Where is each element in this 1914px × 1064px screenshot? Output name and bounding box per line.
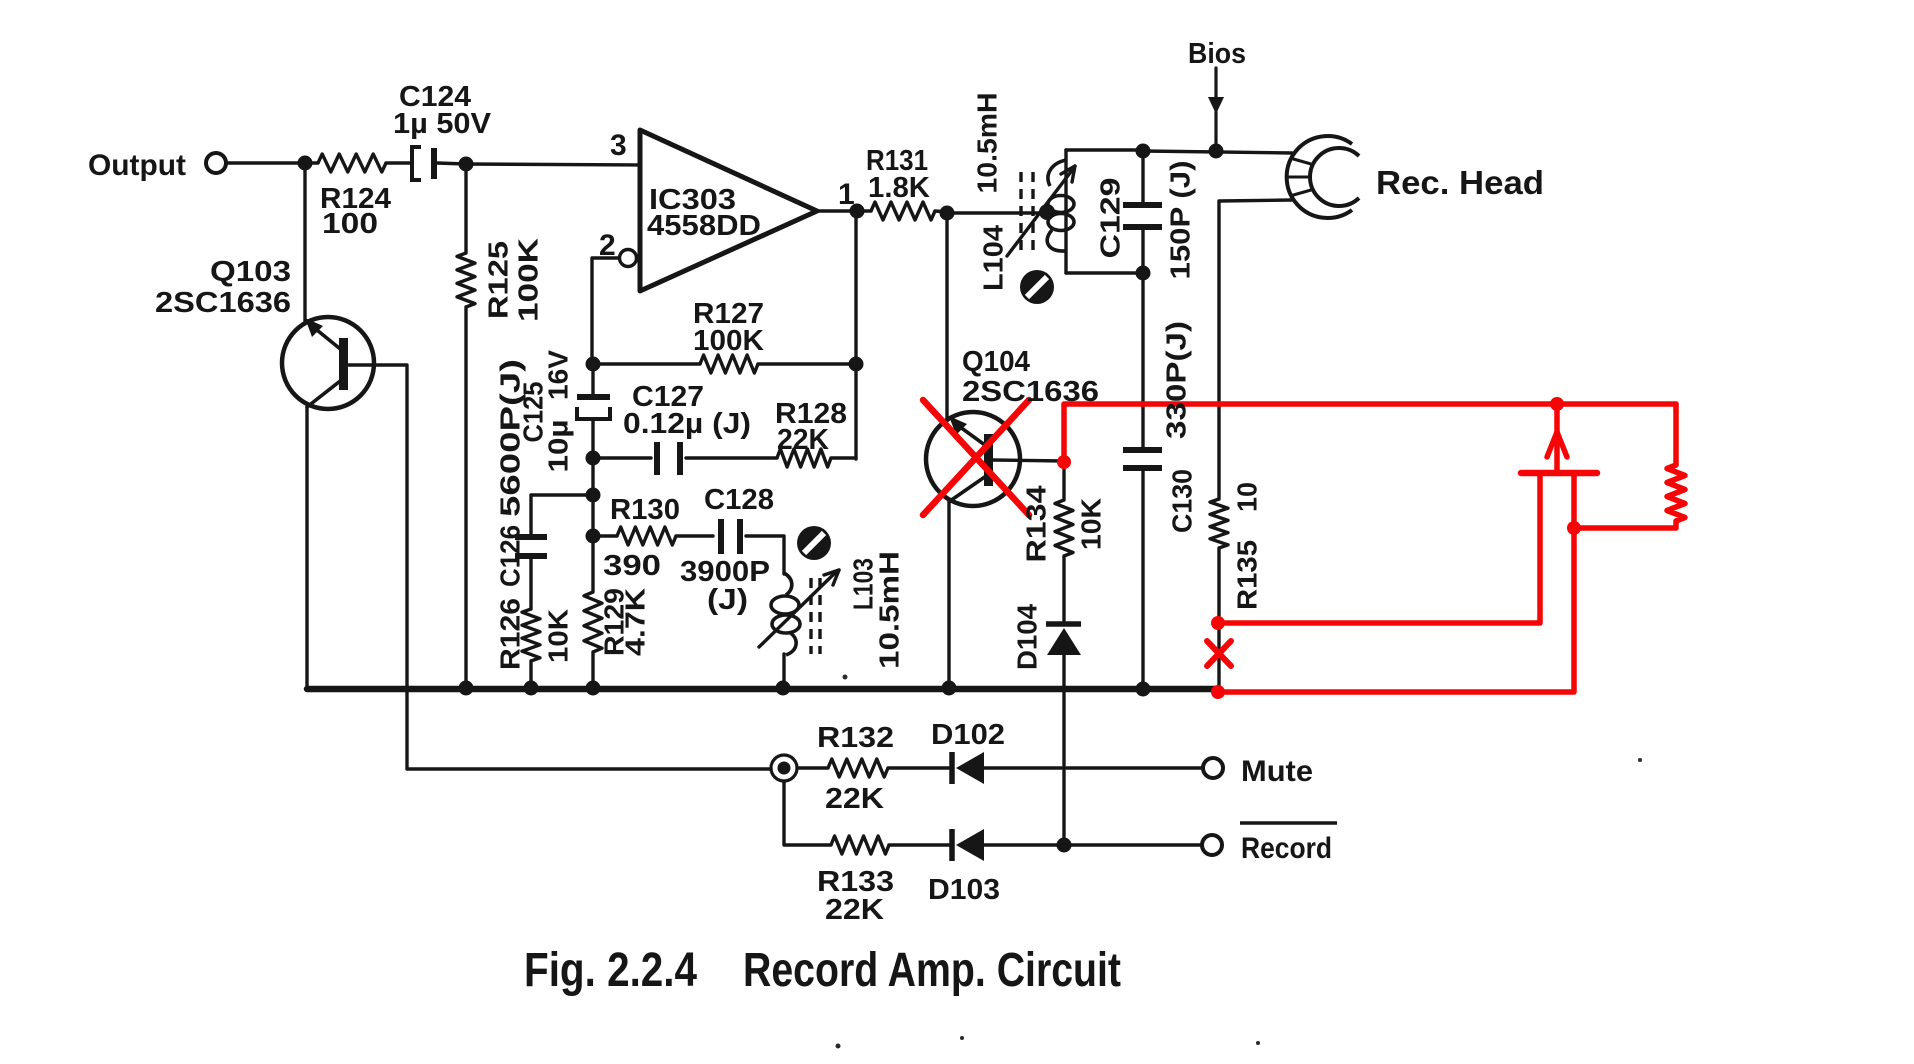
svg-text:C126: C126	[495, 525, 526, 587]
wire Bias lead upper	[1214, 68, 1217, 97]
diode D103 triangle	[956, 829, 984, 861]
node R130 row	[586, 529, 601, 544]
red wire left leg to R135	[1218, 473, 1540, 623]
inductor L104 coil	[1047, 160, 1074, 251]
resistor R128	[777, 449, 831, 467]
wire R135 bottom lead	[1217, 548, 1220, 692]
speck	[960, 1036, 964, 1040]
wire node to op-amp pin 3	[466, 164, 640, 165]
svg-text:Rec. Head: Rec. Head	[1376, 164, 1544, 201]
svg-text:100K: 100K	[513, 238, 544, 322]
red arrowhead stroke a	[1547, 432, 1557, 457]
capacitor C130 bottom plate	[1123, 465, 1162, 471]
capacitor C129 top plate	[1123, 202, 1162, 208]
resistor R135	[1210, 499, 1228, 548]
svg-text:16V: 16V	[543, 350, 574, 400]
svg-text:2SC1636: 2SC1636	[962, 376, 1099, 408]
wire C127 left lead	[593, 456, 651, 459]
diode D104 triangle	[1047, 628, 1081, 655]
capacitor C127 right plate	[677, 442, 683, 475]
wire D102 to Mute terminal	[984, 766, 1203, 769]
wire R130 left stub	[593, 534, 617, 537]
svg-text:4558DD: 4558DD	[647, 210, 761, 242]
svg-text:2: 2	[599, 229, 616, 262]
red arrowhead stroke b	[1557, 432, 1567, 457]
wire Q103 emitter down to bus corner	[305, 407, 308, 689]
wire R127 right lead	[758, 362, 856, 365]
wire C126 branch	[531, 495, 593, 534]
svg-text:R130: R130	[610, 494, 680, 526]
resistor R133	[831, 836, 889, 854]
transistor Q104 emitter stroke	[950, 474, 989, 501]
node bus R126	[524, 681, 539, 696]
svg-text:100: 100	[322, 208, 378, 240]
speck	[1256, 1041, 1260, 1045]
capacitor C125 top plate	[577, 394, 610, 400]
svg-text:10K: 10K	[543, 609, 574, 663]
inductor L103 core dashes	[811, 578, 820, 654]
wire R127 left lead	[593, 362, 700, 365]
wire R133 to D103	[889, 843, 951, 846]
svg-text:10: 10	[1232, 482, 1263, 512]
wire pin1 output lead	[817, 209, 871, 212]
svg-text:R132: R132	[817, 722, 894, 754]
wire D103 to Record terminal	[984, 843, 1202, 846]
rec head inner arc	[1310, 148, 1359, 206]
wire C127 to R128	[686, 456, 777, 459]
red node at bus end	[1211, 685, 1225, 699]
red node top rail junction	[1550, 397, 1564, 411]
svg-text:150P (J): 150P (J)	[1165, 161, 1196, 280]
svg-text:10K: 10K	[1076, 498, 1107, 550]
svg-text:Fig. 2.2.4: Fig. 2.2.4	[524, 944, 697, 997]
wire R128 right lead	[831, 456, 856, 459]
wire feedback vertical pin1 to R128	[854, 211, 857, 459]
red X break mark b	[1207, 641, 1231, 666]
svg-text:390: 390	[603, 550, 661, 582]
transistor Q104 collector stroke	[956, 424, 989, 448]
wire Q104 emitter to bus	[947, 500, 950, 689]
svg-text:3: 3	[610, 129, 627, 162]
speck	[843, 675, 848, 680]
svg-text:C128: C128	[704, 484, 774, 516]
wire Q103 base lead right and down to mute row	[349, 365, 771, 769]
resistor R126	[522, 609, 540, 661]
red node at R135 bottom	[1211, 616, 1225, 630]
node pin1 junction	[850, 204, 865, 219]
capacitor C126 bottom plate	[515, 553, 547, 559]
inductor L104 adjust arrowhead	[1061, 166, 1075, 182]
svg-text:1: 1	[838, 178, 855, 211]
resistor R129	[584, 592, 602, 652]
wire C124 to node	[437, 163, 466, 164]
transistor Q103 emitter stroke	[307, 378, 344, 407]
inductor L104 screw slot	[1020, 270, 1054, 304]
svg-text:R134: R134	[1021, 485, 1052, 562]
wire C125 top stub	[591, 364, 594, 394]
wire R129 to bus	[591, 652, 594, 688]
node R127 left / C125 top	[586, 357, 601, 372]
node Bias junction	[1209, 144, 1224, 159]
wire record row drop	[784, 781, 831, 845]
transistor Q104 body	[926, 412, 1020, 506]
speck	[1638, 758, 1642, 762]
node R131/L104/Q104	[940, 206, 955, 221]
wire node to L104	[947, 211, 1043, 214]
node bus L103	[776, 681, 791, 696]
wire C129 bottom stub	[1141, 227, 1144, 273]
inductor L104 core dashes	[1021, 172, 1033, 252]
wire L104 top lead	[1066, 148, 1143, 151]
diode D102 cathode bar	[949, 752, 955, 784]
node C127 row	[586, 451, 601, 466]
wire L103 bottom lead	[782, 654, 785, 688]
svg-text:Mute: Mute	[1241, 755, 1313, 788]
svg-text:Record Amp. Circuit: Record Amp. Circuit	[743, 944, 1121, 997]
wire Q103 collector drop	[303, 163, 306, 322]
wire Q104 collector drop	[945, 213, 948, 421]
resistor R127	[700, 355, 758, 373]
red X break mark a	[1207, 641, 1231, 666]
wire C126 to R126	[529, 559, 532, 609]
red wire resistor bottom to leg	[1574, 521, 1676, 528]
wire R126 to bus	[529, 661, 532, 688]
transistor Q104 collector arrowhead	[949, 416, 967, 435]
capacitor C128 right plate	[737, 519, 743, 554]
wire mute row left	[797, 766, 828, 769]
wire R130 to C128	[676, 534, 713, 537]
svg-text:2SC1636: 2SC1636	[155, 287, 291, 319]
resistor R134	[1055, 500, 1073, 556]
svg-text:D103: D103	[928, 874, 1000, 906]
wire C129 top stub	[1141, 151, 1144, 203]
transistor Q103 collector stroke	[312, 326, 344, 352]
node C129 top	[1136, 144, 1151, 159]
svg-text:10.5mH: 10.5mH	[874, 551, 905, 669]
svg-text:R135: R135	[1232, 540, 1263, 610]
red wire top rail	[1064, 404, 1676, 462]
svg-text:10µ: 10µ	[543, 420, 574, 473]
node junction C124/pin3/R125	[459, 157, 474, 172]
svg-text:22K: 22K	[825, 783, 884, 815]
op-amp pin 2 inversion bubble	[620, 250, 637, 267]
node bus C130	[1136, 682, 1151, 697]
wire R125 top lead	[464, 164, 467, 253]
wire C128 to L103	[746, 536, 784, 574]
node junction output/R124/Q103 collector	[298, 156, 313, 171]
wire R134 top lead	[1062, 461, 1065, 500]
svg-text:D104: D104	[1012, 604, 1043, 670]
wire L104 bottom lead	[1066, 271, 1143, 274]
red resistor	[1667, 465, 1685, 521]
capacitor C125 bottom bracket plate	[577, 407, 610, 419]
resistor R131	[871, 202, 935, 220]
wire pin2 lead left and down	[592, 258, 619, 362]
svg-text:Bios: Bios	[1188, 38, 1246, 70]
inductor L103 adjust arrow shaft	[759, 571, 837, 647]
capacitor C128 left plate	[718, 519, 724, 554]
red node resistor/leg junction	[1567, 521, 1581, 535]
wire L104 vertical side	[1064, 150, 1067, 273]
svg-text:1µ 50V: 1µ 50V	[393, 108, 492, 140]
resistor R125	[457, 253, 475, 307]
red wire right branch with resistor leads	[1673, 404, 1679, 465]
red transistor bar	[1521, 470, 1597, 477]
red node at R134 top	[1057, 455, 1071, 469]
transistor Q103 base bar	[339, 338, 348, 390]
transistor Q103 collector arrowhead	[305, 318, 323, 337]
diode D102 triangle	[956, 752, 984, 784]
capacitor C127 left plate	[654, 442, 660, 475]
svg-text:Q103: Q103	[210, 256, 291, 288]
svg-text:Q104: Q104	[962, 346, 1030, 378]
capacitor C124 right plate	[431, 148, 437, 179]
wire ground bus	[307, 686, 1219, 693]
svg-text:1.8K: 1.8K	[868, 172, 930, 204]
node bus R125	[459, 681, 474, 696]
node mute feed ring	[771, 755, 797, 781]
wire D104 to record row	[1062, 655, 1065, 845]
wire Bias lead lower	[1214, 112, 1217, 151]
wire R125 bottom lead to bus	[464, 307, 467, 688]
svg-text:0.12µ (J): 0.12µ (J)	[623, 408, 751, 440]
svg-text:R125: R125	[483, 241, 514, 319]
capacitor C129 bottom plate	[1123, 224, 1162, 230]
svg-text:Record: Record	[1241, 832, 1332, 865]
wire rec head bottom lead	[1219, 200, 1292, 499]
svg-text:10.5mH: 10.5mH	[972, 93, 1003, 194]
wire main left column C125 to R129	[591, 419, 594, 592]
inductor L104 adjust arrow shaft	[1007, 169, 1073, 256]
svg-text:R126: R126	[495, 598, 526, 670]
op-amp U IC303 triangle	[640, 130, 817, 291]
wire output to node	[227, 161, 318, 164]
svg-text:D102: D102	[931, 719, 1005, 751]
inductor L103 screw slot	[797, 526, 831, 560]
wire top rail C129 to rec head	[1143, 151, 1292, 153]
node D104/record row	[1057, 838, 1072, 853]
rec head winding ticks	[1285, 158, 1311, 196]
speck	[836, 1044, 841, 1049]
Bias arrowhead	[1208, 97, 1224, 114]
resistor R130	[617, 527, 676, 545]
svg-text:4.7K: 4.7K	[620, 588, 651, 656]
node R127 right	[849, 357, 864, 372]
capacitor C124 left plate	[412, 147, 421, 180]
resistor R124	[318, 154, 386, 172]
terminal Mute	[1203, 758, 1223, 778]
transistor Q104 base bar	[984, 434, 993, 486]
svg-text:22K: 22K	[825, 894, 884, 926]
wire R131 to node	[935, 211, 947, 212]
resistor R132	[828, 759, 888, 777]
red X stroke over Q104 b	[923, 400, 1029, 515]
svg-text:C129: C129	[1095, 178, 1126, 259]
diode D103 cathode bar	[949, 829, 955, 861]
red transistor collector shaft	[1554, 404, 1560, 473]
transistor Q103 body	[282, 317, 374, 409]
node mute feed dot	[778, 762, 791, 775]
red X stroke over Q104 a	[923, 400, 1029, 515]
svg-text:C130: C130	[1167, 469, 1198, 533]
terminal Output	[206, 153, 226, 173]
wire R132 to D102	[888, 766, 951, 769]
inductor L103 coil	[771, 573, 800, 655]
svg-text:Output: Output	[88, 149, 186, 182]
label Record overline	[1240, 821, 1337, 824]
diode D104 cathode bar	[1046, 621, 1081, 627]
node C126 branch	[586, 488, 601, 503]
inductor L103 adjust arrowhead	[824, 570, 839, 585]
wire Q104 base lead	[993, 460, 1064, 461]
svg-text:330P(J): 330P(J)	[1161, 321, 1192, 439]
node bus R129	[586, 681, 601, 696]
svg-text:(J): (J)	[707, 584, 748, 616]
terminal Record	[1202, 835, 1222, 855]
svg-text:22K: 22K	[777, 424, 829, 456]
wire C130 top lead	[1141, 273, 1144, 448]
red wire right leg to bus end	[1218, 473, 1574, 692]
svg-text:L104: L104	[978, 225, 1009, 291]
wire R134 to D104	[1062, 556, 1065, 622]
svg-text:100K: 100K	[693, 325, 764, 357]
wire C130 bottom lead to bus	[1141, 468, 1144, 689]
capacitor C130 top plate	[1123, 447, 1162, 453]
wire R124 to C124	[386, 161, 410, 164]
node bus Q104 emitter	[942, 681, 957, 696]
inductor L104 tap blob	[1039, 204, 1055, 220]
node C129 bottom	[1136, 266, 1151, 281]
rec head outer arc	[1287, 136, 1352, 218]
capacitor C126 top plate	[515, 534, 547, 540]
